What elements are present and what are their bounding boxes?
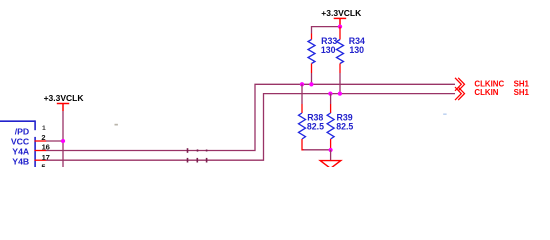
svg-text:+3.3VCLK: +3.3VCLK xyxy=(321,8,362,18)
wire to ground xyxy=(330,150,332,161)
label CLKINC SH1 xyxy=(474,79,529,88)
svg-text:5: 5 xyxy=(41,162,45,167)
junction R39 / CLKIN xyxy=(328,91,332,95)
pin Y4B pin 17 xyxy=(12,153,49,167)
wire ticks on CLKINC wire xyxy=(188,148,207,153)
off-page connector CLKINC xyxy=(455,78,465,91)
wire R38 to R39 xyxy=(304,149,331,151)
pin Y4A pin 16 xyxy=(12,143,49,157)
junction VCC xyxy=(61,139,65,143)
svg-text:130: 130 xyxy=(349,45,364,55)
svg-text:Y4B: Y4B xyxy=(12,157,29,167)
svg-text:SH1: SH1 xyxy=(514,88,530,97)
wire CLKIN net (from Y4B) xyxy=(46,94,455,161)
pin VCC pin 2 xyxy=(11,133,46,146)
svg-text:2: 2 xyxy=(41,133,45,142)
junction R34 / CLKIN xyxy=(338,91,342,95)
label R39 82.5 xyxy=(336,112,353,131)
svg-text:VCC: VCC xyxy=(11,136,30,146)
svg-text:/PD: /PD xyxy=(15,127,29,137)
svg-text:130: 130 xyxy=(321,45,336,55)
svg-text:SH1: SH1 xyxy=(514,79,530,88)
svg-text:82.5: 82.5 xyxy=(307,121,324,131)
svg-text:+3.3VCLK: +3.3VCLK xyxy=(44,93,85,103)
junction R33 / CLKINC xyxy=(309,82,313,86)
IC U1 box xyxy=(0,120,35,167)
label R34 130 xyxy=(349,36,365,55)
wire VCC net xyxy=(46,111,63,167)
wire power to R33 xyxy=(312,27,341,34)
svg-text:CLKIN: CLKIN xyxy=(474,88,498,97)
off-page connector CLKIN xyxy=(455,87,465,100)
label CLKIN SH1 xyxy=(474,88,529,97)
resistor R33 xyxy=(308,34,315,74)
label R38 82.5 xyxy=(307,112,324,131)
svg-text:1: 1 xyxy=(42,125,46,132)
power symbol +3.3VCLK (left) xyxy=(57,104,69,112)
wire CLKINC net (from Y4A) xyxy=(46,84,455,150)
wire R34 to CLKIN xyxy=(339,73,341,94)
resistor R34 xyxy=(337,27,344,73)
resistor R39 xyxy=(327,104,334,150)
wire R38 top xyxy=(301,84,303,104)
junction R38 / CLKINC xyxy=(300,82,304,86)
label R33 130 xyxy=(321,36,337,55)
pin /PD pin 1 xyxy=(15,125,46,137)
wire R33 to CLKINC xyxy=(311,73,313,84)
svg-text:82.5: 82.5 xyxy=(336,121,353,131)
wire ticks on CLKIN wire xyxy=(188,158,207,163)
ground xyxy=(320,161,341,169)
svg-text:Y4A: Y4A xyxy=(12,147,30,157)
power symbol +3.3VCLK (top) xyxy=(334,18,347,26)
junction power / R34 xyxy=(338,24,342,28)
resistor R38 xyxy=(299,104,306,150)
wire R39 top xyxy=(330,94,332,104)
svg-text:CLKINC: CLKINC xyxy=(474,79,504,88)
junction R38 / R39 / GND xyxy=(329,148,333,152)
